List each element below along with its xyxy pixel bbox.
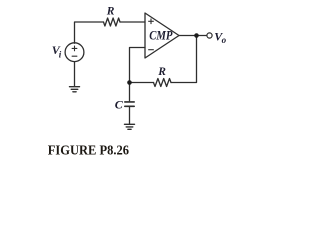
output terminal Vo open circle: [207, 33, 212, 38]
svg-text:R: R: [157, 66, 166, 78]
wire: source top to resistor R1: [75, 22, 104, 43]
node A junction dot: [127, 80, 132, 85]
ground (below source Vi): [70, 87, 80, 92]
op-amp - pin label: [148, 49, 154, 51]
output node junction dot: [194, 33, 199, 38]
ground (below capacitor C): [125, 124, 135, 129]
wire: op-amp - input to node A: [130, 48, 146, 101]
wire: capacitor C to ground: [129, 106, 131, 124]
svg-text:CMP: CMP: [149, 29, 173, 43]
wire: source bottom to ground: [74, 62, 76, 87]
svg-text:i: i: [59, 50, 62, 60]
source Vi + polarity mark: [72, 47, 77, 49]
svg-text:C: C: [115, 98, 124, 112]
op-amp + pin label: [148, 19, 154, 25]
op-amp U1 triangle (comparator CMP): [145, 13, 179, 58]
source Vi - polarity mark: [72, 55, 77, 57]
capacitor C plates: [125, 101, 134, 103]
wire: resistor R1 to op-amp + input: [120, 21, 145, 23]
svg-text:FIGURE P8.26: FIGURE P8.26: [48, 143, 129, 158]
resistor R1 (input R): [104, 18, 121, 26]
svg-text:R: R: [106, 6, 115, 18]
wire: output node down to feedback level: [171, 36, 197, 83]
wire: feedback resistor to node A: [130, 82, 154, 84]
svg-text:o: o: [222, 35, 227, 45]
wire: op-amp output to terminal Vo: [179, 35, 207, 37]
voltage source Vi circle: [65, 43, 84, 62]
resistor R2 (feedback R): [154, 79, 172, 87]
